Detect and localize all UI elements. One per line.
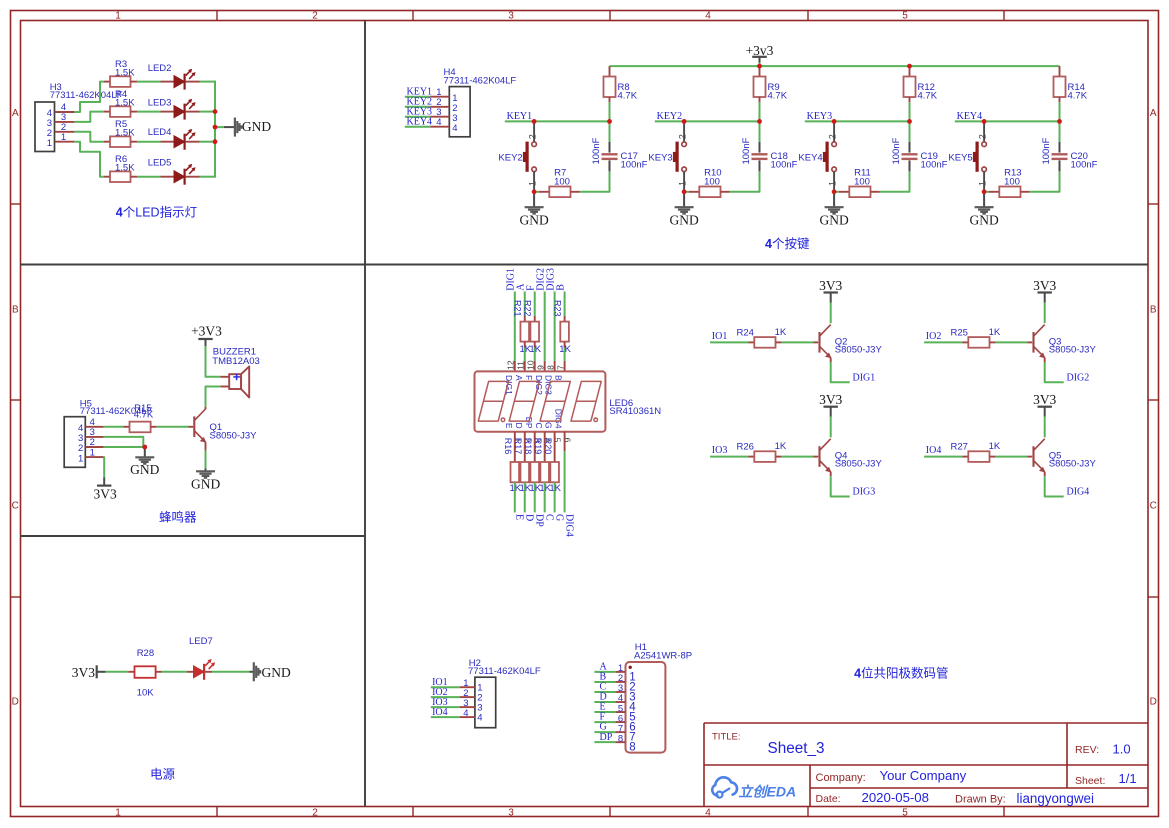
svg-text:Date:: Date:	[816, 793, 841, 805]
label 4 keys	[765, 237, 810, 251]
svg-text:11: 11	[516, 361, 526, 370]
node junction	[832, 189, 837, 194]
wire resistor to base	[996, 341, 1032, 343]
svg-text:8: 8	[618, 733, 623, 744]
node junction	[757, 119, 762, 124]
svg-text:R25: R25	[951, 327, 968, 338]
label buzzer	[159, 510, 197, 525]
net label A	[594, 662, 615, 673]
svg-text:C: C	[534, 422, 544, 428]
svg-text:LED2: LED2	[148, 63, 172, 74]
svg-text:77311-462K04LF: 77311-462K04LF	[468, 666, 541, 677]
switch KEY3	[648, 121, 687, 191]
pin number	[542, 438, 552, 443]
pin number	[535, 365, 545, 370]
wire	[200, 111, 216, 113]
wire KEY3 net	[805, 120, 910, 122]
resistor R6 1.5K	[104, 154, 137, 182]
svg-text:4: 4	[463, 708, 468, 719]
ground GND flag (LED section)	[235, 118, 271, 137]
svg-text:100nF: 100nF	[591, 137, 602, 164]
node junction	[142, 445, 147, 450]
net label DIG3	[853, 487, 876, 498]
net label DIG4	[1067, 487, 1090, 498]
drawn by label	[955, 794, 1006, 806]
wire KEY1 net	[505, 120, 610, 122]
resistor R21 1K	[513, 300, 532, 355]
svg-text:4个按键: 4个按键	[765, 237, 810, 251]
svg-text:KEY4: KEY4	[798, 153, 822, 164]
wire emitter to DIG4	[1045, 472, 1064, 497]
wire key net to capacitor	[909, 121, 911, 141]
svg-text:3V3: 3V3	[72, 665, 95, 680]
svg-text:GND: GND	[242, 119, 271, 134]
wire to capacitor	[580, 171, 610, 192]
svg-text:3V3: 3V3	[93, 486, 116, 501]
wire	[564, 432, 566, 513]
node junction	[532, 119, 537, 124]
net label IO3	[712, 445, 728, 456]
resistor R8 4.7K pull-up	[604, 66, 638, 102]
net label B (top)	[555, 284, 566, 291]
pin number	[522, 438, 532, 443]
node junction	[982, 189, 987, 194]
svg-text:B: B	[1150, 305, 1157, 316]
wire H3.1 to R6	[74, 142, 104, 177]
svg-text:DIG3: DIG3	[853, 487, 876, 498]
svg-text:R26: R26	[737, 442, 754, 453]
wire +3v3 rail	[610, 63, 1060, 67]
wire	[554, 482, 556, 512]
svg-text:4: 4	[705, 10, 711, 21]
svg-text:4: 4	[436, 117, 441, 128]
svg-text:GND: GND	[969, 213, 998, 228]
svg-text:1: 1	[827, 181, 837, 186]
wire LED cathode bus	[214, 81, 216, 178]
svg-text:GND: GND	[819, 213, 848, 228]
svg-text:C: C	[12, 501, 19, 512]
svg-text:G: G	[553, 514, 564, 521]
svg-text:TITLE:: TITLE:	[712, 732, 741, 743]
svg-text:100nF: 100nF	[621, 160, 648, 171]
rev label	[1075, 744, 1099, 756]
capacitor C18 100nF	[741, 137, 797, 171]
wire key net to capacitor	[1059, 121, 1061, 141]
svg-text:100nF: 100nF	[921, 160, 948, 171]
logo LCEDA cloud	[712, 777, 737, 797]
svg-text:R17: R17	[513, 438, 523, 455]
net label C	[594, 682, 615, 693]
svg-text:2: 2	[312, 10, 318, 21]
resistor R14 4.7K pull-up	[1054, 66, 1088, 102]
svg-text:1: 1	[115, 10, 121, 21]
node junction	[982, 119, 987, 124]
svg-text:DP: DP	[600, 732, 613, 743]
resistor R3 1.5K	[104, 59, 137, 87]
resistor R18 1K	[523, 432, 542, 494]
7-seg digit 4	[571, 381, 601, 421]
transistor Q3 S8050-J3Y	[1034, 325, 1097, 359]
svg-text:1.5K: 1.5K	[115, 97, 135, 108]
svg-text:S8050-J3Y: S8050-J3Y	[1049, 344, 1097, 355]
net label IO2	[431, 687, 460, 698]
svg-text:GND: GND	[130, 462, 159, 477]
net label DIG3 (top)	[545, 268, 556, 291]
net label IO1	[431, 677, 460, 688]
resistor R16 1K	[503, 432, 522, 494]
LED LED5	[148, 158, 200, 185]
svg-text:GND: GND	[519, 213, 548, 228]
7-segment display LED6 SR410361N body	[475, 371, 662, 431]
wire key net to capacitor	[609, 121, 611, 141]
resistor R23 1K	[552, 300, 571, 355]
resistor R28 10K	[128, 648, 161, 698]
svg-text:DIG2: DIG2	[1067, 373, 1090, 384]
svg-text:R22: R22	[523, 300, 533, 317]
svg-text:DP: DP	[524, 417, 534, 429]
net label IO1	[712, 331, 728, 342]
svg-text:4.7K: 4.7K	[918, 91, 938, 102]
title block lines	[704, 723, 1148, 807]
wire H3.3 to R4	[74, 112, 104, 122]
LED LED2	[148, 63, 200, 90]
svg-text:蜂鸣器: 蜂鸣器	[159, 510, 197, 525]
net label G	[594, 722, 615, 733]
section divider horizontal upper	[20, 264, 1148, 266]
node junction	[532, 189, 537, 194]
svg-text:GND: GND	[669, 213, 698, 228]
wire	[564, 348, 566, 371]
rev value	[1113, 742, 1131, 757]
resistor R20 1K	[543, 432, 562, 494]
wire pull-up to key net	[609, 102, 611, 121]
svg-text:IO4: IO4	[432, 707, 448, 718]
section divider horizontal lower	[20, 535, 365, 537]
svg-text:1K: 1K	[775, 441, 787, 452]
wire	[534, 482, 536, 512]
svg-text:D: D	[1150, 697, 1157, 708]
svg-text:C: C	[543, 514, 554, 521]
sheet label	[1075, 775, 1105, 787]
svg-text:1.5K: 1.5K	[115, 163, 135, 174]
ground GND	[819, 192, 848, 228]
svg-text:C: C	[1150, 501, 1157, 512]
wire	[137, 141, 161, 143]
svg-text:4.7K: 4.7K	[134, 410, 154, 421]
connector H4	[430, 67, 516, 137]
svg-text:IO4: IO4	[926, 445, 942, 456]
svg-text:8: 8	[629, 742, 635, 754]
wire to capacitor	[880, 171, 910, 192]
resistor R24 1K	[737, 327, 787, 348]
svg-text:IO2: IO2	[926, 331, 942, 342]
wire 3V3 to collector	[830, 303, 832, 324]
net label KEY4	[957, 111, 983, 122]
wire	[137, 111, 161, 113]
node junction	[213, 139, 218, 144]
transistor Q5 S8050-J3Y	[1034, 439, 1097, 473]
company label	[816, 772, 866, 784]
svg-text:LED5: LED5	[148, 158, 172, 169]
svg-text:1: 1	[527, 181, 537, 186]
sheet value	[1119, 771, 1137, 786]
wire	[137, 176, 161, 178]
power 3V3 flag (Q2)	[819, 278, 842, 303]
svg-text:R20: R20	[543, 438, 553, 455]
svg-text:DIG1: DIG1	[853, 373, 876, 384]
wire	[544, 482, 546, 512]
svg-text:立创EDA: 立创EDA	[739, 784, 797, 800]
wire KEY4 net	[955, 120, 1060, 122]
wire IO to resistor	[924, 341, 962, 343]
pin name (bottom)	[554, 409, 564, 429]
wire buzzer pin2 to Q1 collector	[206, 387, 221, 410]
wire 3V3 to collector	[1044, 303, 1046, 324]
svg-text:77311-462K04LF: 77311-462K04LF	[444, 76, 517, 87]
wire 3V3 to collector	[1044, 417, 1046, 438]
transistor Q4 S8050-J3Y	[820, 439, 883, 473]
resistor R22 1K	[523, 300, 542, 355]
svg-text:LED4: LED4	[148, 127, 172, 138]
wire	[524, 482, 526, 512]
svg-text:R24: R24	[737, 327, 754, 338]
svg-text:IO3: IO3	[712, 445, 728, 456]
svg-text:DP: DP	[534, 514, 545, 527]
svg-text:100: 100	[1004, 177, 1020, 188]
wire	[162, 671, 187, 673]
LED LED4	[148, 127, 200, 150]
capacitor C20 100nF	[1041, 137, 1097, 171]
net label IO4	[431, 707, 460, 718]
power +3v3 flag	[746, 43, 774, 62]
svg-text:100: 100	[854, 177, 870, 188]
svg-text:REV:: REV:	[1075, 744, 1099, 756]
svg-text:Company:: Company:	[816, 772, 866, 784]
svg-text:4.7K: 4.7K	[618, 91, 638, 102]
svg-text:D: D	[524, 514, 535, 521]
net label KEY2	[657, 111, 683, 122]
wire	[212, 671, 254, 673]
pin number	[562, 438, 572, 443]
drawn by value	[1017, 791, 1094, 806]
node junction	[907, 64, 912, 69]
pin name (top)	[524, 375, 534, 380]
net label KEY3	[807, 111, 833, 122]
label power	[150, 767, 176, 781]
power 3V3 flag (Q3)	[1033, 278, 1056, 303]
svg-text:2: 2	[977, 134, 987, 139]
net label DP	[594, 732, 615, 743]
resistor R5 1.5K	[104, 119, 137, 147]
svg-text:B: B	[12, 305, 19, 316]
svg-text:R16: R16	[503, 438, 513, 455]
resistor R17 1K	[513, 432, 532, 494]
svg-text:100: 100	[554, 177, 570, 188]
svg-text:A: A	[514, 375, 524, 381]
wire	[524, 292, 526, 317]
net label E (bottom)	[514, 514, 525, 520]
connector H1 A2541WR-8P	[615, 642, 692, 753]
wire IO to resistor	[924, 456, 962, 458]
svg-text:1.5K: 1.5K	[115, 128, 135, 139]
wire to capacitor	[1030, 171, 1060, 192]
pin name (top)	[534, 375, 544, 395]
wire KEY2 net	[655, 120, 760, 122]
svg-text:2: 2	[827, 134, 837, 139]
svg-text:DIG4: DIG4	[563, 514, 574, 537]
svg-text:R23: R23	[552, 300, 562, 317]
svg-text:KEY5: KEY5	[948, 153, 972, 164]
pin number	[555, 365, 565, 370]
net label KEY4	[405, 116, 432, 127]
resistor R15 4.7K	[104, 403, 157, 432]
connector H3	[35, 82, 123, 151]
title text	[712, 732, 741, 743]
switch KEY2	[498, 121, 537, 191]
net label F (top)	[525, 285, 536, 291]
wire pull-up to key net	[1059, 102, 1061, 121]
svg-text:12: 12	[506, 360, 516, 370]
svg-text:1K: 1K	[775, 327, 787, 338]
svg-text:B: B	[555, 284, 566, 291]
net label D (bottom)	[524, 514, 535, 521]
date label	[816, 793, 841, 805]
resistor R9 4.7K pull-up	[754, 66, 788, 102]
resistor R25 1K	[951, 327, 1001, 348]
svg-text:KEY2: KEY2	[498, 153, 522, 164]
wire pull-up to key net	[759, 102, 761, 121]
node junction	[682, 119, 687, 124]
ground GND flag (power)	[254, 662, 291, 681]
pin number	[516, 361, 526, 370]
node junction	[682, 189, 687, 194]
svg-text:2: 2	[527, 134, 537, 139]
pin name (bottom)	[524, 417, 534, 429]
buzzer BUZZER1 TMB12A03	[212, 347, 260, 398]
power 3V3 flag (Q5)	[1033, 392, 1056, 417]
net label G (bottom)	[553, 514, 564, 521]
resistor R10 100	[684, 168, 729, 197]
wire	[544, 292, 546, 371]
resistor R11 100	[834, 168, 879, 197]
wire	[564, 292, 566, 317]
svg-text:4.7K: 4.7K	[768, 91, 788, 102]
pin number	[552, 438, 562, 443]
7-seg digit 3	[540, 381, 570, 421]
wire to GND flag	[215, 126, 235, 128]
svg-text:TMB12A03: TMB12A03	[212, 356, 260, 367]
svg-text:3V3: 3V3	[819, 278, 842, 293]
svg-text:Sheet_3: Sheet_3	[768, 740, 825, 757]
resistor R19 1K	[533, 432, 552, 494]
svg-text:100nF: 100nF	[1041, 137, 1052, 164]
label 4 LED indicator	[116, 204, 197, 219]
svg-text:100nF: 100nF	[771, 160, 798, 171]
svg-text:7: 7	[555, 365, 565, 370]
connector H2	[460, 658, 541, 728]
wire R15 to Q1 base	[157, 426, 194, 428]
node junction	[907, 119, 912, 124]
wire H3.2 to R5	[74, 132, 104, 142]
pin name (bottom)	[504, 423, 514, 429]
pin number	[506, 360, 516, 370]
svg-text:GND: GND	[262, 665, 291, 680]
svg-text:D: D	[514, 422, 524, 428]
title value Sheet_3	[768, 740, 825, 757]
ground GND	[669, 192, 698, 228]
net label C (bottom)	[543, 514, 554, 521]
wire	[106, 671, 129, 673]
power +3V3 flag	[191, 324, 222, 347]
node junction	[213, 125, 218, 130]
svg-text:2020-05-08: 2020-05-08	[862, 790, 929, 805]
wire 3V3 to collector	[830, 417, 832, 438]
svg-text:LED3: LED3	[148, 98, 172, 109]
connector H5	[64, 398, 153, 467]
svg-text:S8050-J3Y: S8050-J3Y	[210, 431, 258, 442]
wire IO to resistor	[710, 341, 748, 343]
wire	[200, 176, 216, 178]
svg-text:4: 4	[452, 123, 457, 134]
net label KEY1	[405, 86, 432, 97]
svg-text:1.0: 1.0	[1113, 742, 1131, 757]
pin name (top)	[554, 375, 564, 381]
net label B	[594, 672, 615, 683]
svg-text:1: 1	[977, 181, 987, 186]
resistor R27 1K	[951, 441, 1001, 462]
svg-text:F: F	[524, 375, 534, 380]
svg-text:IO1: IO1	[712, 331, 728, 342]
svg-text:4位共阳极数码管: 4位共阳极数码管	[854, 665, 948, 680]
svg-text:3V3: 3V3	[819, 392, 842, 407]
wire	[200, 141, 216, 143]
net label DIG2	[1067, 373, 1090, 384]
svg-text:SR410361N: SR410361N	[609, 406, 661, 417]
wire	[514, 482, 516, 512]
wire	[200, 81, 216, 83]
svg-text:A2541WR-8P: A2541WR-8P	[634, 651, 692, 662]
wire	[137, 81, 161, 83]
svg-text:S8050-J3Y: S8050-J3Y	[835, 459, 883, 470]
pin number	[545, 365, 555, 370]
svg-text:R28: R28	[137, 648, 154, 659]
wire resistor to base	[782, 456, 819, 458]
svg-text:liangyongwei: liangyongwei	[1017, 791, 1094, 806]
net label KEY1	[507, 111, 533, 122]
company value	[880, 768, 967, 783]
svg-text:电源: 电源	[150, 767, 176, 781]
svg-text:10K: 10K	[137, 687, 155, 698]
wire H5.2 to gnd junction	[104, 446, 145, 448]
svg-text:GND: GND	[191, 477, 220, 492]
section divider vertical	[364, 20, 366, 807]
net label KEY3	[405, 106, 432, 117]
net label IO4	[926, 445, 942, 456]
resistor R7 100	[534, 168, 579, 197]
svg-text:2: 2	[312, 807, 318, 818]
net label D	[594, 692, 615, 703]
wire	[514, 292, 516, 371]
svg-text:S8050-J3Y: S8050-J3Y	[1049, 459, 1097, 470]
transistor Q2 S8050-J3Y	[820, 325, 883, 359]
svg-text:D: D	[12, 697, 19, 708]
power 3V3 flag (Q4)	[819, 392, 842, 417]
power 3V3 flag right	[72, 665, 106, 680]
svg-text:Sheet:: Sheet:	[1075, 775, 1105, 787]
svg-text:5: 5	[902, 10, 908, 21]
pin number	[526, 360, 536, 370]
svg-text:1.5K: 1.5K	[115, 67, 135, 78]
